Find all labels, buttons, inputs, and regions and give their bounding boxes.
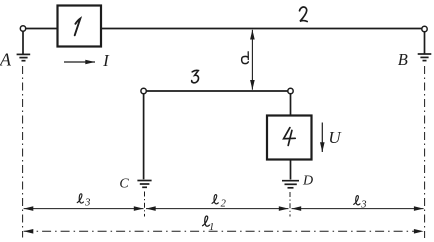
box 4 (element 4) xyxy=(267,116,312,160)
svg-text:U: U xyxy=(328,128,342,147)
svg-text:A: A xyxy=(0,50,12,70)
current arrow I xyxy=(64,61,95,63)
node B terminal circle xyxy=(422,26,427,31)
ground at C xyxy=(137,181,151,188)
wire: A terminal down to ground xyxy=(22,31,24,54)
svg-text:C: C xyxy=(119,177,129,192)
svg-text:D: D xyxy=(302,174,313,189)
box 1 (element 1) xyxy=(58,6,102,47)
svg-text:I: I xyxy=(102,51,110,70)
svg-text:2: 2 xyxy=(221,198,227,209)
voltage arrow U xyxy=(321,123,323,153)
label a (rotated) xyxy=(242,52,249,64)
svg-text:B: B xyxy=(398,50,408,69)
svg-text:1: 1 xyxy=(209,222,214,233)
centerline below ground A (left extension line) xyxy=(22,66,24,238)
label 4 xyxy=(284,128,296,146)
label 1 xyxy=(75,19,81,36)
label 3 (wire 3) xyxy=(192,70,199,82)
ground at B xyxy=(418,54,432,61)
ground at A xyxy=(17,54,31,60)
centerline below ground B (right extension line) xyxy=(424,66,426,238)
ground at D xyxy=(282,181,299,188)
label 2 (wire 2) xyxy=(300,7,308,22)
centerline below ground D xyxy=(289,192,291,217)
wire: B terminal down to ground xyxy=(424,32,426,54)
node circle left end of wire 3 xyxy=(141,88,146,93)
wire: wire3 left end down to ground C xyxy=(143,94,145,180)
label l2 xyxy=(212,195,227,210)
label l3 left xyxy=(77,194,90,209)
node A terminal circle xyxy=(20,26,25,31)
wire 2: box 1 to B terminal xyxy=(101,28,422,30)
node circle right end of wire 3 xyxy=(288,88,293,93)
label l1 xyxy=(203,216,215,233)
svg-text:3: 3 xyxy=(84,198,90,209)
wire: A terminal to box 1 xyxy=(26,28,58,30)
dimension line l2 middle segment xyxy=(146,208,289,210)
dimension line l1 (dash-dot full width) xyxy=(24,230,424,232)
wire: wire3 right end down to box 4 xyxy=(290,94,292,116)
wire 3 horizontal xyxy=(146,90,287,92)
wire: box 4 down to ground D xyxy=(290,160,292,180)
dimension line l3 left segment xyxy=(24,208,144,210)
label l3 right xyxy=(354,196,367,211)
svg-text:3: 3 xyxy=(360,199,366,210)
dimension line l3 right segment xyxy=(292,208,424,210)
dimension a (wire2 to wire3) xyxy=(251,30,253,90)
centerline below ground C xyxy=(144,192,146,217)
